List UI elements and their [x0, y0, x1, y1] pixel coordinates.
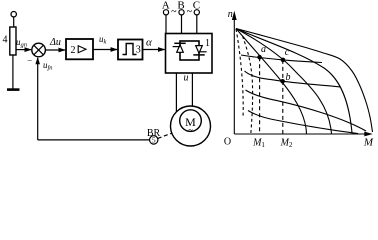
thyristor right (triangle down) — [196, 46, 203, 54]
pulse symbol — [123, 44, 137, 55]
svg-text:b: b — [286, 72, 291, 83]
dashed curve D1 — [236, 29, 243, 118]
point a — [257, 55, 262, 60]
arrowhead — [59, 48, 66, 53]
wire phase A — [165, 15, 167, 34]
amplifier triangle symbol — [78, 46, 86, 53]
svg-text:−: − — [27, 55, 32, 65]
cathode bar left — [174, 42, 185, 44]
dashed vertical M2 — [282, 60, 284, 134]
svg-text:~: ~ — [187, 7, 193, 18]
wire (junction to amplifier) — [45, 49, 65, 51]
n axis — [233, 13, 235, 134]
svg-text:2: 2 — [71, 45, 76, 56]
amplifier block 2 — [66, 39, 93, 59]
motor outer circle — [171, 106, 211, 146]
wire (trigger to converter) — [143, 49, 165, 51]
cathode bar right — [193, 54, 204, 56]
open-loop curve O3 — [236, 29, 332, 135]
svg-text:α: α — [146, 37, 152, 49]
wire (feedback up into junction) — [37, 58, 39, 140]
wire (wiper to summing junction) — [16, 49, 31, 51]
svg-text:n: n — [228, 9, 233, 20]
potentiometer 4 — [10, 27, 16, 55]
point b — [280, 79, 285, 84]
closed-loop line L3 — [246, 90, 367, 131]
svg-text:1: 1 — [205, 38, 210, 49]
terminal C circle — [194, 10, 199, 15]
shaft coupling dashed — [158, 133, 172, 138]
svg-text:3: 3 — [136, 45, 141, 56]
motor inner circle — [180, 110, 202, 132]
dashed curve D2 — [243, 36, 253, 134]
tachogenerator BR circle 5 — [150, 136, 158, 144]
converter block 1 — [166, 34, 213, 74]
svg-text:4: 4 — [3, 35, 8, 46]
closed-loop line L2 — [245, 71, 342, 87]
graph — [232, 11, 373, 137]
terminal A circle — [163, 10, 168, 15]
svg-text:O: O — [224, 137, 231, 148]
arrowhead — [232, 11, 237, 20]
terminal B circle — [179, 10, 184, 15]
svg-text:c: c — [285, 47, 290, 58]
svg-text:a: a — [261, 44, 266, 55]
dashed vertical M1 — [259, 57, 261, 134]
arrowhead — [364, 132, 373, 137]
arrowhead — [25, 47, 32, 52]
trigger block 3 — [118, 40, 143, 60]
wire (amplifier to trigger) — [93, 49, 117, 51]
svg-text:A: A — [162, 0, 170, 12]
arrowhead — [111, 47, 118, 52]
svg-text:~: ~ — [188, 125, 193, 134]
open-loop curve O4 — [236, 29, 307, 135]
gate left — [173, 46, 180, 48]
closed-loop line L1 (through a and c) — [241, 55, 322, 63]
arrowhead — [158, 47, 165, 52]
wire (feedback bottom run) — [38, 139, 150, 141]
wire phase C — [196, 15, 198, 34]
thyristor left (triangle up) — [177, 45, 184, 53]
svg-text:5: 5 — [152, 136, 156, 145]
svg-text:u: u — [184, 73, 189, 84]
inner rect (thyristor pair loop) — [180, 41, 199, 60]
svg-text:Δu: Δu — [49, 37, 61, 48]
closed-loop line L4 — [248, 111, 358, 134]
svg-text:M: M — [363, 137, 374, 148]
M axis — [234, 133, 369, 135]
open-loop curve O1 (max voltage) — [236, 29, 373, 133]
terminal circle (potentiometer top) — [11, 12, 16, 17]
svg-text:C: C — [193, 0, 200, 12]
terminal bar — [7, 88, 20, 91]
open-loop curve O2 — [236, 29, 352, 134]
wire converter to motor right — [191, 73, 193, 106]
wire — [13, 17, 15, 27]
wire phase B — [181, 15, 183, 34]
wire converter to motor left — [175, 73, 177, 112]
point c — [281, 58, 286, 63]
svg-text:B: B — [177, 0, 184, 12]
summing junction — [32, 43, 46, 57]
arrowhead — [35, 57, 40, 64]
svg-text:~: ~ — [171, 7, 177, 18]
wire — [12, 55, 14, 89]
gate right — [199, 51, 206, 53]
